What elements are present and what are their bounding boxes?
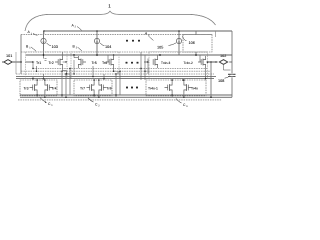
svg-text:Tr2: Tr2	[49, 61, 54, 65]
svg-text:Tr5: Tr5	[92, 61, 97, 65]
svg-text:Tr4n: Tr4n	[191, 86, 198, 90]
svg-text:108: 108	[218, 79, 224, 83]
svg-text:Tr6: Tr6	[102, 61, 107, 65]
svg-text:Tr7: Tr7	[80, 86, 85, 90]
svg-text:Tr4n-1: Tr4n-1	[148, 86, 158, 90]
svg-text:101: 101	[6, 54, 12, 58]
svg-text:106: 106	[189, 41, 195, 45]
svg-text:103: 103	[52, 45, 58, 49]
svg-text:105: 105	[157, 46, 163, 50]
svg-text:Tr4n-3: Tr4n-3	[161, 61, 170, 65]
svg-text:102: 102	[220, 54, 226, 58]
svg-text:104: 104	[105, 45, 111, 49]
svg-text:Tr3: Tr3	[24, 86, 29, 90]
svg-text:Tr1: Tr1	[36, 61, 41, 65]
svg-text:Tr4n-2: Tr4n-2	[184, 61, 193, 65]
svg-text:Tr8: Tr8	[107, 86, 112, 90]
svg-text:Tr4: Tr4	[52, 86, 57, 90]
